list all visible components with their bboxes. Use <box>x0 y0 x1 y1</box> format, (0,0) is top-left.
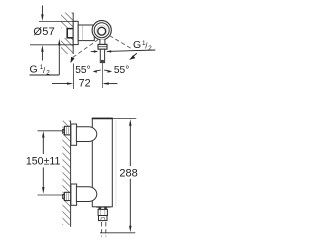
handle inner circle <box>98 27 106 35</box>
dimension Ø57 <box>30 6 77 61</box>
288 dimension line (broken for text) <box>129 126 131 167</box>
union nut behind wall (top view) <box>67 29 73 38</box>
body shading line <box>115 120 117 206</box>
outlet fitting under body <box>96 207 110 220</box>
leader arrow from G1/2 label (diagonal) <box>129 53 137 60</box>
dimension 72 <box>52 64 118 90</box>
handle outer circle (top view) <box>92 21 111 40</box>
Ø57 bottom arrow (pointing up) <box>41 51 43 61</box>
72 left arrow <box>52 83 71 85</box>
150 bottom arrow (pointing down) <box>42 187 44 194</box>
72 left extension line <box>73 64 75 90</box>
outlet nut (top view) <box>98 44 107 49</box>
handle ring 2 <box>94 23 109 38</box>
Ø57 top arrow (pointing down) <box>41 6 43 16</box>
valve body (top view) <box>78 25 94 41</box>
escutcheon flange Ø57 (top view) <box>73 21 78 44</box>
outlet centerline (vertical) <box>101 63 103 88</box>
top inlet stub <box>63 129 65 132</box>
G1/2 arrow left of outlet <box>91 50 98 52</box>
bottom union nut <box>64 192 70 200</box>
288 top arrow (pointing up) <box>129 119 131 126</box>
G1/2 arrow right of outlet + leader line to label <box>107 50 156 53</box>
pipe hole through wall (white band) <box>60 28 74 38</box>
bottom escutcheon <box>71 184 77 205</box>
288 bottom arrow (pointing down) <box>129 226 131 233</box>
body facet line <box>82 26 84 41</box>
outlet stem below handle <box>100 39 105 44</box>
bottom inlet stub <box>63 195 65 199</box>
150 top extension line <box>38 130 64 132</box>
dimension 150±11 <box>26 131 64 195</box>
svg-text:Ø57: Ø57 <box>33 26 55 38</box>
wall face line (front view) <box>70 121 72 227</box>
svg-text:G: G <box>30 64 38 76</box>
svg-text:2: 2 <box>148 45 152 52</box>
vertical leader of left G1/2 <box>58 46 60 76</box>
top escutcheon <box>71 124 77 145</box>
Ø57 top extension line <box>39 20 77 22</box>
svg-text:288: 288 <box>119 168 137 180</box>
svg-text:55°: 55° <box>75 65 90 76</box>
underline of left G1/2 <box>30 74 60 76</box>
svg-text:150±11: 150±11 <box>26 155 61 167</box>
150 dimension line (broken for text) <box>42 137 44 154</box>
handle ring 3 <box>97 25 107 35</box>
outlet nipple (top view) <box>100 49 104 62</box>
288 top extension line <box>113 117 136 119</box>
55° swivel dashed line (left) <box>73 39 99 57</box>
72 right arrow <box>104 83 118 85</box>
label G 1/2 (right) <box>133 39 152 52</box>
wall face line (top view) <box>72 13 74 55</box>
Ø57 bottom extension line <box>30 44 73 46</box>
150 top arrow (pointing up) <box>42 131 44 138</box>
hose dashed lines <box>102 222 106 239</box>
body top edge (thick) <box>92 117 113 119</box>
arrowhead of left swivel line <box>70 57 74 64</box>
top S-union elbow <box>76 127 96 142</box>
mixer body (front view) <box>92 118 112 206</box>
top union nut <box>64 126 70 135</box>
leader arrowhead (pointing up) <box>58 39 60 46</box>
150 bottom extension line <box>38 194 64 196</box>
angle arc arrow (left of centerline) <box>93 70 101 73</box>
label G 1/2 (left) with leader <box>30 39 61 77</box>
svg-text:72: 72 <box>79 78 91 90</box>
wall section (front view, hatched) <box>62 121 70 226</box>
svg-text:G: G <box>133 39 141 51</box>
dimension 288 <box>100 118 138 232</box>
svg-text:55°: 55° <box>114 65 129 76</box>
288 bottom extension line <box>100 232 135 234</box>
bottom S-union elbow <box>76 187 96 202</box>
wall section (top view, hatched) <box>61 13 73 55</box>
angle arc arrow (right of centerline) <box>104 70 112 73</box>
55° swivel dashed line (right) <box>110 36 133 50</box>
